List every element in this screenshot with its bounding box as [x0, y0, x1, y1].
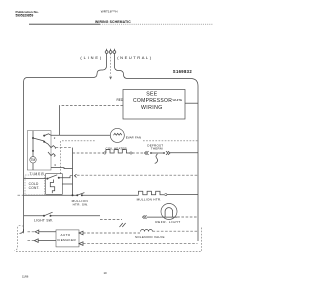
bulb base wire: [161, 216, 177, 218]
defrost therm contact dots: [150, 152, 152, 154]
cold control output connector: [75, 174, 77, 177]
defrost therm right connector: [166, 151, 170, 155]
defrost therm dashed link: [132, 152, 144, 154]
timer box: [27, 131, 51, 170]
svg-text:4: 4: [54, 154, 56, 158]
light switch blade: [44, 212, 53, 216]
cold control assembly dashed box: [25, 175, 44, 195]
cold control contact dots: [46, 178, 48, 180]
icemaker lead 2 wire: [38, 240, 56, 242]
bulb filament: [165, 208, 173, 217]
bottom dashed boundary: [16, 227, 202, 251]
icemaker left connector 2: [34, 239, 38, 243]
icemaker left lead row 1: [28, 231, 36, 233]
timer contact dot 1: [32, 137, 34, 139]
solenoid neutral dashed: [153, 230, 198, 232]
svg-text:11/96: 11/96: [22, 274, 29, 278]
svg-text:MULLION HTR.: MULLION HTR.: [137, 198, 162, 202]
mullion heater element: [139, 191, 165, 195]
auto icemaker label: [57, 233, 77, 242]
svg-text:5995329859: 5995329859: [16, 14, 34, 18]
compressor block box: [123, 90, 185, 120]
svg-text:COIL HEATER: COIL HEATER: [106, 146, 128, 150]
svg-text:COMPRESSOR: COMPRESSOR: [133, 98, 172, 104]
compressor feed drop wire: [58, 106, 60, 136]
svg-text:ICEMAKER: ICEMAKER: [57, 238, 77, 242]
evap fan feed wire: [59, 134, 110, 136]
light switch dots: [43, 215, 45, 217]
timer stem wire dot1 to box top: [32, 131, 34, 138]
svg-text:LIGHT SW.: LIGHT SW.: [34, 219, 53, 223]
svg-text:SEE: SEE: [146, 92, 157, 98]
timer motor bottom wire: [32, 163, 34, 170]
evap fan motor: [110, 128, 124, 142]
publication number text: [16, 10, 39, 18]
light row connector: [120, 223, 126, 227]
defrost therm capillary: [155, 154, 158, 163]
svg-text:3: 3: [54, 163, 56, 167]
light row wire left: [24, 215, 44, 217]
door boundary link dash: [21, 225, 24, 227]
compressor feed dashed wire: [59, 105, 123, 107]
defrost therm contact wire: [151, 152, 164, 154]
icemaker right connector 1: [79, 231, 83, 235]
svg-text:THERM: THERM: [151, 147, 163, 151]
cold control lower output wire: [62, 183, 72, 185]
timer wire dot4 to motor: [32, 151, 34, 157]
cold control blade: [47, 175, 57, 179]
defrost therm left connector: [145, 151, 149, 155]
timer terminal 3 wire: [51, 168, 73, 169]
plug prong ticks: [107, 49, 115, 51]
plug prong circles: [105, 51, 116, 54]
door boundary curve: [15, 226, 21, 251]
mullion heater switch blade: [77, 193, 84, 196]
defrost feed vertical wire: [72, 148, 74, 196]
auto icemaker box: [56, 230, 79, 247]
svg-text:2: 2: [54, 136, 56, 140]
left rail bottom curve: [20, 229, 24, 233]
svg-text:WHITE: WHITE: [173, 98, 183, 102]
svg-text:EVAP. FAN: EVAP. FAN: [126, 136, 141, 140]
compressor box text: [133, 92, 172, 112]
cold control bellows: [50, 180, 54, 194]
timer terminal 2 wire: [44, 134, 59, 136]
light row dashed to rail: [177, 216, 198, 218]
icemaker left lead row 2: [28, 240, 35, 242]
header rule: [29, 23, 100, 25]
svg-text:SOLENOID VALVE: SOLENOID VALVE: [135, 235, 165, 239]
compartment dashed boundary vertical: [59, 141, 61, 174]
cold control label: [29, 182, 40, 190]
icemaker right connector 2: [79, 242, 83, 246]
compressor feed dashed run: [70, 174, 198, 176]
refrigerator light bulb: [161, 204, 177, 220]
mullion row wire: [82, 194, 139, 196]
svg-text:S169832: S169832: [173, 69, 193, 74]
ground dashed lead: [110, 54, 112, 76]
icemaker left connector 1: [35, 230, 39, 234]
timer wire dot1 to dot4: [32, 138, 34, 151]
coil heater terminal right: [130, 152, 132, 154]
svg-text:(NEUTRAL): (NEUTRAL): [117, 55, 152, 60]
coil heater element: [106, 150, 130, 153]
header rule dotted right part: [100, 23, 213, 25]
svg-text:WIRING: WIRING: [141, 105, 163, 111]
compressor neutral wire: [185, 102, 198, 104]
right rail wire: [197, 86, 199, 241]
compartment dashed boundary horizontal: [62, 140, 198, 142]
svg-text:CONT.: CONT.: [29, 186, 40, 190]
timer motor TM: [30, 157, 36, 163]
mullion row feed wire: [18, 194, 24, 196]
coil heater terminal left: [104, 152, 106, 154]
svg-text:RED: RED: [117, 98, 124, 102]
svg-text:(LINE): (LINE): [80, 55, 103, 60]
svg-text:WIRING SCHEMATIC: WIRING SCHEMATIC: [95, 20, 131, 24]
left rail wire: [23, 82, 25, 234]
solenoid coil: [141, 230, 153, 232]
timer terminal 4 contact: [48, 152, 56, 156]
cold control switch box: [46, 174, 63, 195]
wire line-side from plug to left rail: [24, 54, 107, 82]
cold control output wire: [59, 176, 70, 178]
svg-text:REFR. LIGHT: REFR. LIGHT: [155, 220, 180, 224]
mullion heater terminal: [165, 194, 167, 196]
light row wire mid: [51, 215, 101, 217]
mullion heater neutral wire: [167, 194, 198, 196]
mullion heater switch dots: [76, 194, 78, 196]
icemaker right lead 1 dashed: [83, 232, 140, 234]
icemaker lead 1 wire: [39, 231, 56, 233]
wire neutral-side from plug to right rail: [114, 54, 198, 86]
defrost therm neutral wire: [170, 152, 198, 154]
defrost heater dashed feed: [73, 152, 104, 154]
svg-text:10: 10: [104, 271, 108, 275]
svg-text:HTR. SW.: HTR. SW.: [73, 202, 89, 206]
timer blade wire: [33, 138, 44, 141]
cold control feed wire: [24, 178, 46, 180]
svg-text:TM: TM: [31, 158, 36, 162]
timer contact dot 2: [43, 135, 45, 137]
light row wire to bulb: [143, 215, 162, 219]
svg-text:AUTO: AUTO: [61, 233, 71, 237]
timer contact dot 3: [43, 141, 45, 143]
timer terminal 1 wire: [56, 147, 73, 149]
timer terminal 1 contact: [44, 142, 55, 148]
light row dashed run: [100, 219, 122, 221]
ground arrowhead: [109, 77, 112, 80]
icemaker right lead 2 dashed: [83, 243, 198, 245]
mullion row junction dot: [72, 194, 74, 196]
svg-text:WRT18***H: WRT18***H: [101, 10, 118, 14]
timer contact dot 4: [32, 150, 34, 152]
